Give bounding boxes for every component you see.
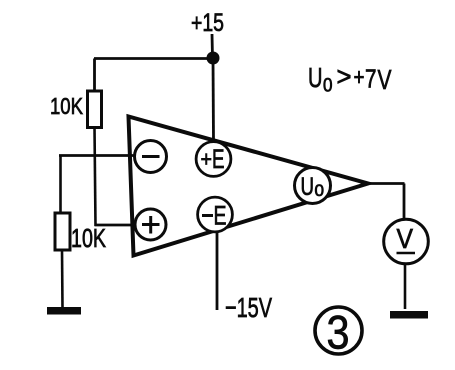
svg-text:+: +: [201, 147, 213, 172]
wire junction down to +E pin: [212, 58, 215, 142]
wire −E pin down to −15V: [216, 232, 219, 310]
wire inverting input horizontal: [59, 154, 136, 157]
svg-text:0: 0: [315, 181, 325, 200]
label U0 > +7V (output condition): [308, 62, 392, 97]
wire junction to left corner (top rail): [94, 57, 213, 60]
voltmeter V: [384, 219, 429, 264]
wire corner right to non-inverting input: [95, 224, 137, 227]
svg-text:E: E: [214, 201, 227, 231]
wire +15 down to junction: [211, 34, 214, 58]
resistor R2 10K (body): [55, 213, 70, 250]
resistor R1 10K (body): [88, 91, 102, 128]
wire R1 bottom down to corner: [95, 128, 96, 227]
svg-text:U: U: [308, 62, 323, 93]
svg-text:10K: 10K: [71, 223, 106, 253]
op-amp U1 (triangle body): [129, 117, 369, 256]
pin −E (negative supply pin): [198, 197, 233, 232]
wire R2 bottom to ground: [61, 250, 64, 308]
wire down to voltmeter: [403, 184, 406, 222]
wire left node down to R2 top: [59, 156, 62, 215]
pin +E (positive supply pin): [196, 142, 231, 177]
svg-text:+: +: [354, 64, 365, 91]
ground (left): [47, 307, 81, 315]
svg-text:10K: 10K: [50, 93, 84, 119]
svg-text:7: 7: [365, 64, 377, 94]
inverting input pin circle (−): [135, 141, 167, 173]
svg-text:V: V: [378, 64, 392, 95]
svg-text:E: E: [212, 144, 225, 174]
output node U0 circle: [295, 168, 331, 204]
wire corner down to R1 top: [93, 59, 96, 93]
non-inverting input pin circle (+): [135, 209, 166, 240]
ground (right): [390, 311, 428, 319]
figure number 3 (circled): [315, 306, 362, 359]
svg-text:U: U: [301, 173, 315, 201]
svg-text:V: V: [397, 223, 414, 254]
svg-text:−15V: −15V: [225, 292, 272, 323]
svg-text:3: 3: [327, 306, 350, 359]
svg-text:+15: +15: [191, 9, 224, 37]
node A: supply junction dot: [207, 52, 220, 65]
wire output horizontal: [366, 182, 405, 185]
svg-text:>: >: [337, 62, 352, 92]
svg-text:0: 0: [323, 76, 333, 97]
wire voltmeter to ground: [404, 263, 407, 310]
